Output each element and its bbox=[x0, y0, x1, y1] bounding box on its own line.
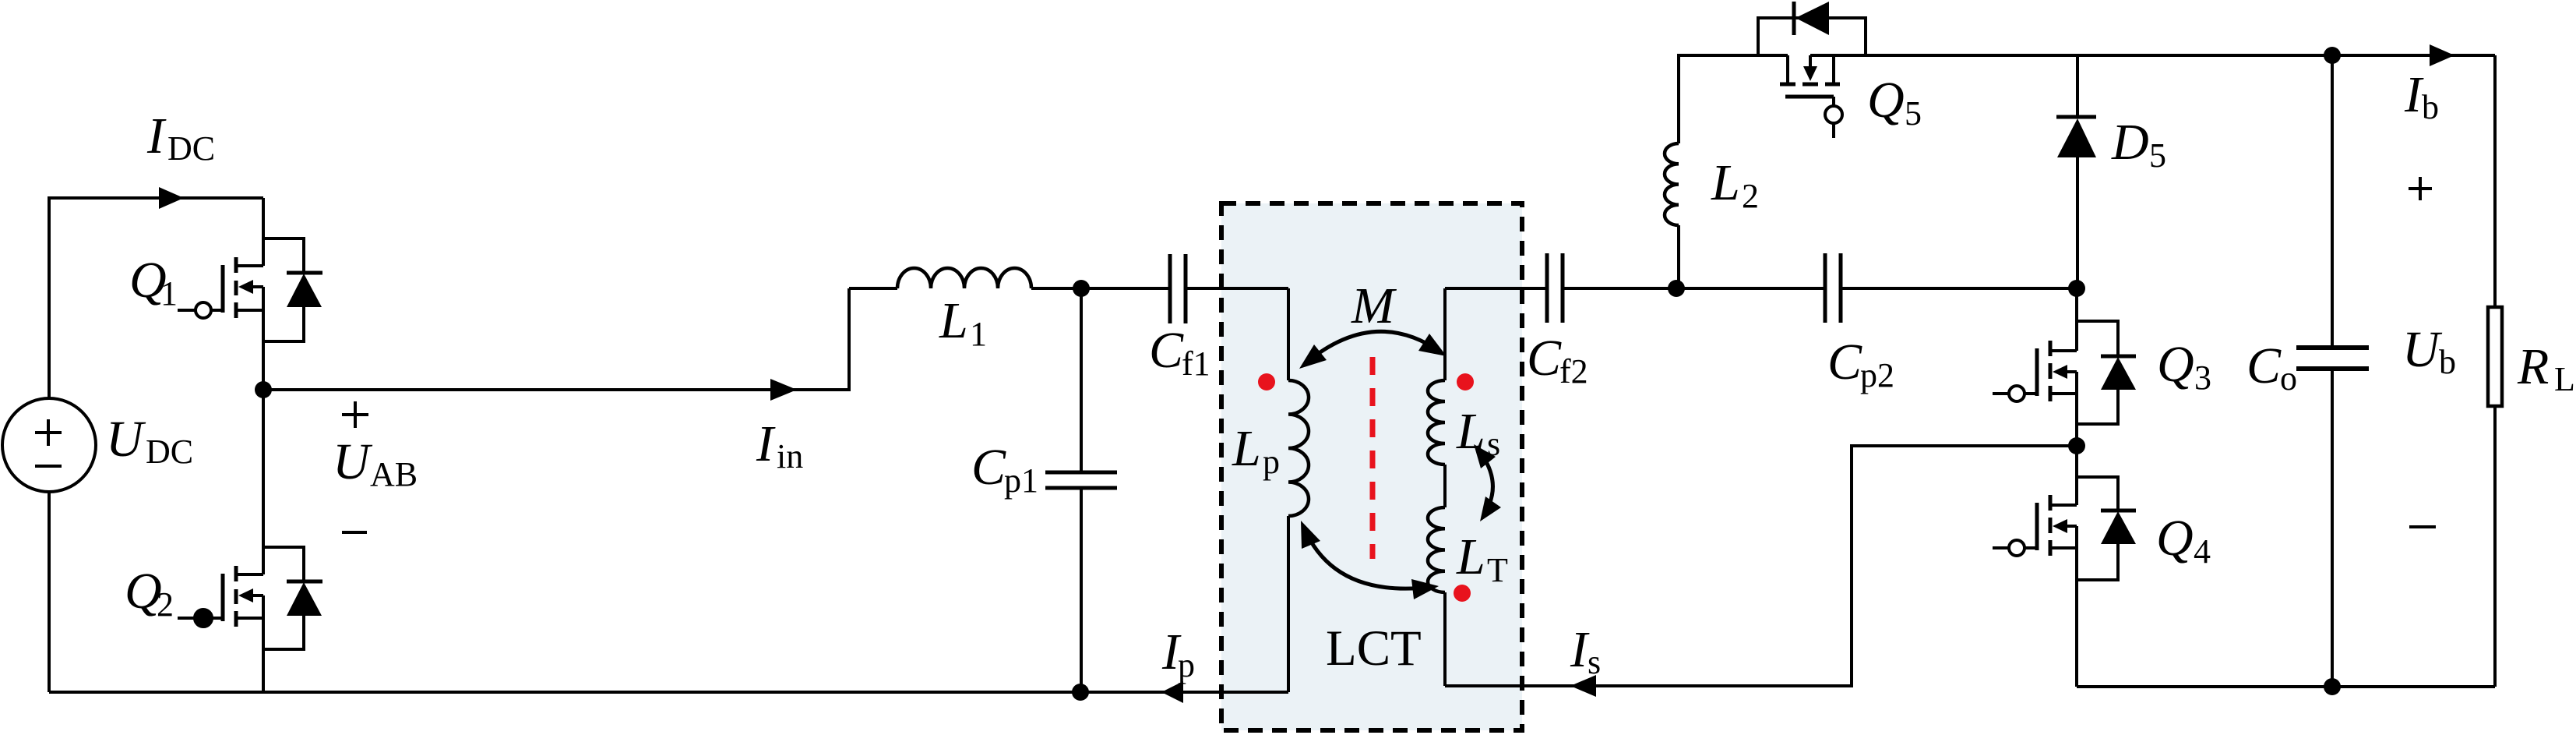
dot Lp polarity bbox=[1258, 373, 1275, 390]
node L1-Cf1-Cp1 junction bbox=[1073, 280, 1090, 297]
label UAB minus bbox=[342, 531, 367, 534]
dot Ls polarity bbox=[1457, 373, 1474, 390]
svg-text:3: 3 bbox=[2194, 359, 2211, 397]
wire left vertical bottom bbox=[48, 492, 51, 692]
svg-text:f2: f2 bbox=[1559, 352, 1588, 390]
svg-text:Q: Q bbox=[2157, 336, 2194, 393]
svg-text:L: L bbox=[1456, 528, 1485, 585]
inductor L2 bbox=[1677, 225, 1680, 288]
node A junction bbox=[255, 381, 272, 398]
svg-text:C: C bbox=[1149, 322, 1184, 379]
svg-text:C: C bbox=[971, 439, 1006, 496]
svg-text:b: b bbox=[2422, 88, 2439, 126]
svg-text:U: U bbox=[333, 433, 373, 490]
dot LT polarity bbox=[1454, 585, 1471, 602]
inductor Ls bbox=[1443, 288, 1447, 380]
svg-text:L: L bbox=[939, 292, 968, 349]
svg-text:1: 1 bbox=[160, 274, 178, 313]
svg-text:p: p bbox=[1178, 646, 1195, 684]
transistor Q3 bbox=[1993, 288, 2136, 446]
svg-text:2: 2 bbox=[157, 585, 174, 624]
wire L1 left lead bbox=[849, 287, 897, 290]
svg-text:D: D bbox=[2111, 114, 2149, 171]
svg-text:C: C bbox=[2247, 337, 2282, 394]
inductor L1 bbox=[897, 268, 1031, 288]
divider red dashed bbox=[1370, 357, 1376, 559]
wire top right bbox=[1810, 54, 2495, 57]
svg-text:AB: AB bbox=[370, 455, 418, 493]
transistor Q5 bbox=[1758, 2, 1866, 138]
capacitor Cf2 bbox=[1547, 253, 1563, 323]
capacitor Cp1 bbox=[1080, 288, 1083, 692]
svg-text:1: 1 bbox=[970, 315, 987, 353]
wire mid rail UAB bbox=[263, 288, 849, 390]
svg-text:DC: DC bbox=[167, 129, 215, 168]
transistor Q4 bbox=[1993, 446, 2136, 687]
svg-text:b: b bbox=[2439, 343, 2456, 381]
svg-text:C: C bbox=[1827, 334, 1862, 390]
wire Ls to Cf2 bbox=[1445, 287, 1547, 290]
svg-text:I: I bbox=[146, 108, 167, 164]
node Co top junction bbox=[2324, 47, 2341, 64]
svg-text:Q: Q bbox=[1867, 72, 1905, 129]
wire Cf2 to Cp2 bbox=[1563, 287, 1825, 290]
svg-text:4: 4 bbox=[2194, 532, 2211, 571]
label Ub minus bbox=[2409, 525, 2436, 528]
wire bottom primary bbox=[49, 691, 1288, 694]
svg-text:in: in bbox=[777, 437, 803, 475]
capacitor Co bbox=[2331, 55, 2334, 687]
svg-text:L: L bbox=[2554, 360, 2575, 398]
svg-text:I: I bbox=[756, 415, 776, 472]
arrow Iin bbox=[770, 379, 797, 401]
svg-text:DC: DC bbox=[146, 433, 193, 471]
arrow M coupling arc bbox=[1299, 331, 1447, 369]
label Ub plus bbox=[2409, 177, 2432, 200]
wire Cp2 to Q3 bbox=[1841, 287, 2077, 290]
svg-text:T: T bbox=[1487, 551, 1508, 589]
wire L1 to node bbox=[1031, 287, 1170, 290]
capacitor Cf1 bbox=[1170, 254, 1186, 323]
arrow Lp-LT coupling arc bbox=[1301, 521, 1439, 599]
svg-text:p1: p1 bbox=[1004, 461, 1038, 500]
svg-text:M: M bbox=[1351, 277, 1397, 334]
svg-text:5: 5 bbox=[1905, 94, 1922, 133]
svg-text:R: R bbox=[2517, 338, 2549, 395]
svg-text:o: o bbox=[2280, 359, 2297, 398]
wire Is bbox=[1445, 446, 2077, 686]
svg-text:LCT: LCT bbox=[1326, 620, 1422, 677]
LCT box bbox=[1221, 203, 1522, 730]
node D5-Q3 junction bbox=[2068, 280, 2085, 297]
capacitor Cp2 bbox=[1825, 253, 1841, 323]
svg-text:s: s bbox=[1588, 643, 1601, 681]
node Q3-Q4 junction bbox=[2068, 437, 2085, 454]
resistor RL bbox=[2493, 55, 2497, 687]
node Co bottom junction bbox=[2324, 678, 2341, 695]
arrow Ip bbox=[1161, 681, 1183, 703]
svg-text:L: L bbox=[1232, 420, 1261, 477]
inductor LT bbox=[1428, 507, 1445, 592]
wire left vertical top bbox=[49, 198, 263, 398]
svg-text:U: U bbox=[106, 411, 146, 468]
node L2 junction bbox=[1668, 280, 1685, 297]
arrow Ls-LT coupling arc bbox=[1474, 444, 1501, 521]
svg-text:p: p bbox=[1263, 443, 1280, 481]
diode D5 bbox=[2056, 55, 2096, 288]
svg-text:f1: f1 bbox=[1182, 345, 1210, 383]
transistor Q1 bbox=[178, 198, 322, 389]
arrow Is bbox=[1570, 675, 1596, 697]
svg-text:p2: p2 bbox=[1860, 356, 1894, 394]
transistor Q2 bbox=[178, 389, 322, 692]
svg-text:Q: Q bbox=[2156, 510, 2194, 567]
node Cp1 bottom junction bbox=[1072, 684, 1089, 701]
svg-text:L: L bbox=[1711, 154, 1740, 211]
svg-text:C: C bbox=[1527, 330, 1562, 387]
arrow Ib bbox=[2430, 44, 2454, 66]
label UAB plus bbox=[342, 401, 368, 428]
wire bottom right bbox=[2077, 685, 2495, 688]
wire Cf1 to Lp bbox=[1186, 287, 1288, 290]
inductor Lp bbox=[1287, 288, 1290, 380]
arrow IDC bbox=[159, 187, 184, 209]
svg-text:5: 5 bbox=[2149, 136, 2166, 175]
svg-text:U: U bbox=[2402, 321, 2443, 378]
svg-text:2: 2 bbox=[1742, 177, 1759, 215]
voltage source UDC bbox=[2, 398, 96, 492]
